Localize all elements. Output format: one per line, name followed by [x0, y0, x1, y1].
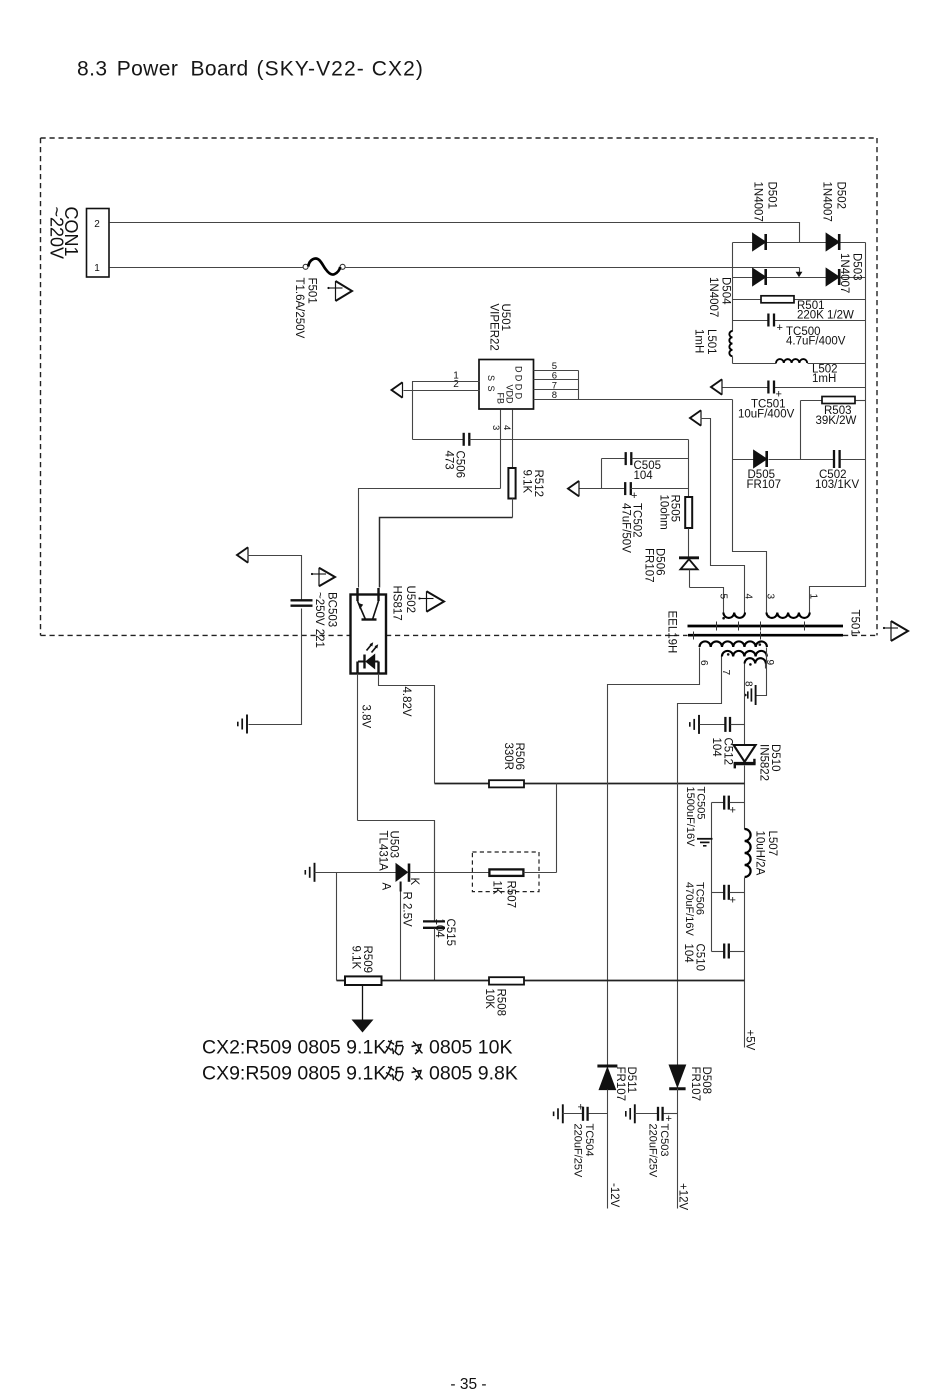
transformer T501 primary winding 5-4: [723, 613, 745, 618]
svg-text:4: 4: [743, 594, 754, 600]
resistor R507: [489, 869, 523, 876]
diode D508: [669, 1065, 685, 1087]
svg-text:FR107: FR107: [747, 479, 782, 491]
svg-text:+: +: [730, 805, 736, 817]
svg-text:R 2.5V: R 2.5V: [401, 892, 413, 927]
svg-text:1: 1: [807, 594, 818, 600]
wire U501 pin1: [413, 382, 480, 440]
svg-text:R5099.1K: R5099.1K: [350, 946, 374, 974]
svg-text:A: A: [380, 883, 392, 891]
inductor L501: [729, 331, 732, 356]
transformer secondary winding 6 row: [700, 641, 767, 647]
ground BC503: [246, 715, 248, 734]
net flag right of fuse: [336, 281, 353, 301]
wire LED cathode to TL431: [358, 821, 435, 922]
svg-text:2: 2: [453, 379, 459, 390]
transformer secondary winding 8-9 row: [745, 658, 766, 663]
wire U501 pin7: [534, 389, 579, 391]
svg-text:FB: FB: [496, 393, 506, 405]
wire bridge bottom row: [733, 277, 866, 279]
wire FB to opto emitter: [359, 489, 501, 588]
svg-text:1mH: 1mH: [812, 373, 836, 385]
arrow below R509: [362, 986, 364, 1021]
svg-text:104: 104: [634, 470, 654, 482]
svg-text:S: S: [486, 375, 496, 381]
net flag TC501 row: [711, 379, 722, 395]
diode D504: [753, 269, 765, 285]
diode D510 schottky: [734, 745, 756, 762]
svg-text:R506330R: R506330R: [502, 743, 525, 771]
wire pin6 to D511: [608, 648, 700, 1065]
svg-text:D: D: [514, 393, 524, 400]
ground C512: [698, 715, 700, 734]
inductor L507: [745, 829, 751, 877]
svg-text:0805 10K: 0805 10K: [429, 1037, 513, 1059]
wire R507 right to node: [524, 872, 557, 874]
svg-text:10uF/400V: 10uF/400V: [738, 409, 795, 421]
svg-text:+: +: [578, 1102, 584, 1114]
svg-text:103/1KV: 103/1KV: [815, 479, 859, 491]
wire DC bus left column: [732, 243, 734, 332]
wire LED anode to feedback node: [379, 674, 435, 784]
svg-text:EEL19H: EEL19H: [666, 611, 678, 654]
resistor R503: [801, 400, 823, 402]
wire R503 to snubber row: [800, 401, 802, 460]
capacitor C502: [833, 450, 835, 468]
wire D508 to +12V: [677, 1089, 679, 1209]
svg-text:R5129.1K: R5129.1K: [521, 470, 545, 498]
capacitor BC503: [291, 599, 313, 601]
svg-text:T501: T501: [849, 610, 861, 636]
wire U501 pin2: [404, 390, 480, 392]
wire fuse to bridge junction: [345, 267, 800, 269]
wire opto emitter label 3.8V: [357, 674, 359, 821]
svg-text:5: 5: [718, 594, 729, 600]
svg-text:K: K: [408, 878, 420, 886]
svg-text:L5011mH: L5011mH: [693, 329, 718, 355]
svg-text:3.8V: 3.8V: [360, 705, 372, 729]
svg-text:39K/2W: 39K/2W: [816, 415, 857, 427]
wire bridge top row: [733, 242, 866, 244]
capacitor C515: [434, 821, 436, 922]
net flag BC503 right: [319, 568, 335, 587]
IC U501 VIPER22: [479, 360, 534, 410]
hanzi wei: [412, 1042, 423, 1055]
svg-text:220K 1/2W: 220K 1/2W: [797, 310, 854, 322]
wire pin9 common to ground: [757, 648, 767, 696]
core tick marks: [716, 622, 718, 631]
svg-text:1: 1: [94, 263, 100, 274]
wire U501 pin3 FB: [500, 410, 502, 489]
svg-text:CON1~220V: CON1~220V: [47, 207, 82, 260]
hanzi wei 2: [412, 1068, 423, 1081]
LED emission arrows: [367, 645, 372, 651]
capacitor TC501: [723, 387, 769, 389]
wire D511 to -12V: [607, 1090, 609, 1209]
transformer secondary winding 7 row: [722, 651, 767, 657]
capacitor C510: [712, 951, 724, 953]
capacitor TC502: [580, 488, 626, 490]
svg-text:+5V: +5V: [744, 1030, 756, 1051]
net flag source: [392, 382, 403, 398]
wire BC503 to ground: [249, 609, 302, 725]
svg-text:+: +: [777, 322, 783, 334]
wire flag to primary pin4: [701, 419, 745, 613]
net flag secondary right: [891, 621, 908, 641]
wire R512 to opto collector: [380, 518, 513, 588]
capacitor C506: [413, 439, 464, 441]
capacitor TC506: [712, 892, 724, 894]
svg-text:3: 3: [490, 425, 501, 430]
wire D510 to filter node: [744, 766, 746, 830]
wire snubber to primary pin3: [733, 460, 767, 613]
svg-text:D: D: [514, 366, 524, 373]
wire bus to primary pin1: [810, 460, 866, 613]
wire U501 pin4 VDD: [512, 410, 514, 469]
wire CON1 pin1 to fuse: [110, 267, 304, 269]
svg-text:0805 9.8K: 0805 9.8K: [429, 1063, 518, 1085]
isolation boundary dashed box: [41, 138, 878, 635]
diode D506: [679, 556, 699, 559]
optocoupler U502 LED: [366, 655, 375, 669]
wire output row +5V to divider: [337, 980, 745, 982]
svg-text:+12V: +12V: [677, 1183, 689, 1211]
resistor R509: [345, 976, 382, 985]
diode D501: [753, 234, 765, 250]
wire TL431 ref: [400, 882, 402, 892]
svg-text:- 35 -: - 35 -: [450, 1376, 486, 1390]
svg-text:3: 3: [764, 594, 775, 600]
wire CON1 pin2 to bridge: [110, 223, 800, 243]
ground filter rail: [697, 838, 713, 840]
wire U501 drain bus: [578, 371, 580, 400]
svg-text:2: 2: [94, 219, 100, 230]
connector CON1: [87, 209, 110, 278]
diode D511: [597, 1065, 617, 1068]
capacitor TC505: [712, 802, 724, 804]
svg-text:+: +: [730, 895, 736, 907]
optocoupler U502: [351, 595, 387, 674]
wire snubber row: [732, 400, 734, 460]
net flag opto: [427, 591, 445, 612]
net flag VDD return: [568, 481, 579, 497]
wire DC bus right column: [865, 243, 867, 460]
capacitor C505: [602, 458, 625, 460]
svg-text:S: S: [486, 386, 496, 392]
svg-text:4.7uF/400V: 4.7uF/400V: [786, 336, 846, 348]
wire D506 to primary pin5: [690, 588, 724, 613]
svg-text:D: D: [514, 375, 524, 382]
svg-text:D: D: [514, 384, 524, 391]
diode D505: [754, 451, 766, 467]
shunt regulator U503 TL431A: [396, 864, 408, 881]
wire ground junction down: [336, 873, 338, 981]
wire VDD vertical: [688, 440, 690, 498]
wire feedback tap node: [435, 783, 745, 785]
wire ground to TL431 anode: [315, 872, 397, 874]
svg-text:4.82V: 4.82V: [400, 687, 412, 717]
resistor R505: [685, 497, 692, 528]
ground pin9: [755, 685, 757, 705]
svg-text:CX9:R509 0805 9.1K: CX9:R509 0805 9.1K: [202, 1063, 386, 1085]
wire VDD rail: [501, 439, 689, 441]
capacitor TC503: [635, 1113, 658, 1115]
dashed box around R507: [472, 852, 539, 892]
wire filter ground rail: [711, 803, 713, 952]
hanzi gai: [385, 1040, 404, 1055]
svg-text:-12V: -12V: [608, 1183, 620, 1208]
hanzi gai 2: [385, 1066, 404, 1081]
wire flag to BC503: [248, 556, 302, 601]
diode D502: [827, 234, 839, 250]
wire U501 pin8 to drain node: [534, 399, 733, 401]
svg-text:+: +: [631, 490, 637, 502]
svg-text:4: 4: [501, 425, 512, 430]
resistor R506: [489, 780, 524, 787]
wire U501 pin6: [534, 379, 579, 381]
net flag drain return: [690, 410, 701, 426]
ground TL431: [314, 863, 316, 882]
transformer T501 primary winding 3-1: [767, 613, 810, 618]
ground TC504: [562, 1104, 564, 1123]
wire pin8 down: [744, 664, 746, 746]
diode D503: [827, 269, 839, 285]
capacitor C512: [700, 724, 726, 726]
resistor R501: [733, 299, 762, 301]
capacitor TC504: [563, 1113, 583, 1115]
wire pin7 to D508: [678, 657, 722, 1065]
junction arrow into D503/D504 row: [799, 268, 801, 273]
svg-text:CX2:R509 0805 9.1K: CX2:R509 0805 9.1K: [202, 1037, 386, 1059]
resistor R512: [508, 468, 515, 499]
svg-text:VDD: VDD: [505, 385, 515, 405]
ground TC503: [634, 1104, 636, 1123]
transformer core: [688, 625, 844, 628]
resistor R508: [489, 977, 524, 984]
capacitor TC500: [733, 320, 769, 322]
fuse F501: [303, 264, 308, 269]
wire C505 left jog: [601, 459, 603, 489]
inductor L502: [733, 363, 777, 365]
net flag BC503 left: [237, 547, 248, 563]
wire U501 pin5: [534, 370, 579, 372]
wire TL431 cathode to R507: [411, 872, 490, 874]
